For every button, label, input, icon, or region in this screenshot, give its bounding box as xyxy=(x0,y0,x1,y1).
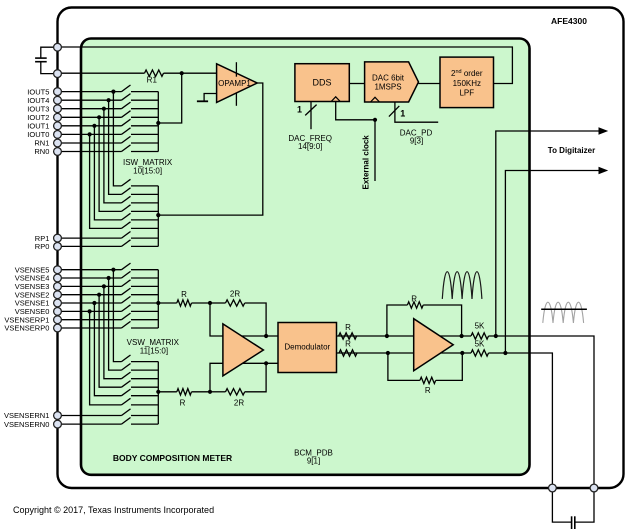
wire ISW upper switch 1 output to bus xyxy=(131,91,158,93)
wire pin VSENSE2 to VSW switch 4 xyxy=(58,294,122,296)
block Demodulator xyxy=(278,323,337,373)
wire demod top output line xyxy=(337,335,472,337)
wire tap IOUT4 down to ISW lower switch 2 xyxy=(109,100,122,194)
pin IOUT0 xyxy=(54,131,62,139)
svg-text:5K: 5K xyxy=(475,340,485,349)
wire node B up to amp1 bottom input xyxy=(210,363,278,392)
DAC_FREQ input stub xyxy=(310,102,312,130)
pin VSENSE1 xyxy=(54,299,62,307)
DAC clock chevron xyxy=(371,97,380,102)
block DAC 6bit 1MSPS xyxy=(365,62,419,102)
node tap on IOUT2 line xyxy=(97,115,101,119)
wire ISW upper switch 7 output to bus xyxy=(131,142,158,144)
node tap on IOUT5 line xyxy=(111,90,115,94)
svg-text:1: 1 xyxy=(297,104,302,114)
wire pin IOUT1 to ISW switch 5 xyxy=(58,125,122,127)
wire tap IOUT3 down to ISW lower switch 3 xyxy=(104,109,122,203)
pin RP1 xyxy=(54,234,62,242)
wire ISW lower switch 2 output to bus xyxy=(131,193,158,195)
wire pin RN1 to ISW switch 7 xyxy=(58,142,122,144)
switch blade VSW upper 5 xyxy=(122,296,131,303)
switch blade VSW upper 6 xyxy=(122,305,131,312)
wire tap IOUT5 down to ISW lower switch 1 xyxy=(113,92,121,186)
svg-text:Copyright © 2017, Texas Instru: Copyright © 2017, Texas Instruments Inco… xyxy=(13,505,214,515)
block DDS xyxy=(295,64,349,102)
ISW upper output bus xyxy=(157,92,159,152)
arrowhead top xyxy=(599,127,609,135)
node tap on IOUT3 line xyxy=(102,107,106,111)
wire pin RP1 to ISW lower switch 7 xyxy=(58,237,122,239)
node tap on IOUT0 line xyxy=(88,132,92,136)
resistor 2R (bottom) xyxy=(226,389,245,395)
node 2R/bottom output junction xyxy=(264,361,268,365)
svg-text:VSW_MATRIX: VSW_MATRIX xyxy=(127,338,180,347)
pin VSENSE2 xyxy=(54,291,62,299)
switch blade VSW lower 8 xyxy=(122,418,131,425)
svg-text:11[15:0]: 11[15:0] xyxy=(140,347,168,356)
wire pin IOUT0 to ISW switch 6 xyxy=(58,133,122,135)
pin IOUT5 xyxy=(54,88,62,96)
svg-text:External clock: External clock xyxy=(362,135,371,190)
switch blade ISW upper 1 xyxy=(122,85,131,92)
node tap on VSENSE3 line xyxy=(102,284,106,288)
wire VSW lower switch 7 output to bus xyxy=(131,415,158,417)
switch blade VSW upper 4 xyxy=(122,288,131,295)
wire VSW upper switch 8 output to bus xyxy=(131,327,158,329)
pin VSENSERP1 xyxy=(54,316,62,324)
svg-text:1: 1 xyxy=(400,108,405,118)
svg-text:10[15:0]: 10[15:0] xyxy=(133,166,162,175)
node ISW lower bus tap xyxy=(156,213,160,217)
svg-text:1MSPS: 1MSPS xyxy=(374,83,401,92)
wire ISW upper switch 3 output to bus xyxy=(131,108,158,110)
switch blade ISW upper 6 xyxy=(122,128,131,135)
node VSW upper bus tap xyxy=(156,301,160,305)
wire VSW upper switch 1 output to bus xyxy=(131,269,158,271)
waveform sketch (rectified sine, internal) xyxy=(442,272,482,299)
wire pin VSENSERN1 to VSW lower switch 7 xyxy=(58,415,122,417)
svg-text:VSENSERP0: VSENSERP0 xyxy=(4,324,49,333)
node tap on VSENSE4 line xyxy=(107,276,111,280)
pin IOUT2 xyxy=(54,113,62,121)
svg-text:OPAMP1: OPAMP1 xyxy=(218,79,251,88)
node tap on VSENSE0 line xyxy=(88,309,92,313)
svg-text:R1: R1 xyxy=(147,75,158,84)
wire VSW lower switch 8 output to bus xyxy=(131,423,158,425)
wire tap VSENSE1 down to VSW lower switch 5 xyxy=(94,303,121,396)
switch blade ISW upper 3 xyxy=(122,102,131,109)
wire VSW upper switch 3 output to bus xyxy=(131,285,158,287)
feedback resistor R (amp2 bottom) loop xyxy=(388,353,420,380)
switch blade VSW upper 7 xyxy=(122,313,131,320)
wire ISW upper switch 8 output to bus xyxy=(131,151,158,153)
node tap on VSENSE1 line xyxy=(92,301,96,305)
switch blade VSW lower 6 xyxy=(122,398,131,405)
wire pin VSENSE1 to VSW switch 5 xyxy=(58,302,122,304)
svg-text:R: R xyxy=(425,386,431,395)
node tap on VSENSE5 line xyxy=(111,268,115,272)
switch blade ISW lower 4 xyxy=(122,205,131,212)
VSW lower output bus xyxy=(157,362,159,425)
wire external clock to DDS and DAC chevrons xyxy=(336,102,375,182)
pin OUT-right (bottom) xyxy=(590,484,598,492)
wire 2R to amp1 bottom output line xyxy=(245,363,266,392)
wire 2R to amp1 top output line xyxy=(245,303,266,336)
wire demod bottom output line xyxy=(337,352,472,354)
svg-text:2R: 2R xyxy=(230,289,240,298)
baseline through grey waveform xyxy=(541,308,587,310)
switch blade ISW lower 1 xyxy=(122,179,131,186)
capacitor C2 (external, bottom) xyxy=(571,516,573,529)
pin VSENSE3 xyxy=(54,283,62,291)
switch blade VSW lower 7 xyxy=(122,409,131,416)
wire VSW lower switch 4 output to bus xyxy=(131,386,158,388)
svg-text:9[3]: 9[3] xyxy=(410,136,423,145)
wire capacitor C1 to pin2 xyxy=(41,62,58,74)
wire node A to resistor 2R (top feedback) xyxy=(210,302,226,304)
op-amp A2 (output buffer) xyxy=(414,319,454,371)
node amp2 bottom output junction xyxy=(460,351,464,355)
wire VSW lower switch 5 output to bus xyxy=(131,395,158,397)
wire R1 to OPAMP1 non-inverting input xyxy=(164,72,217,74)
wire ISW upper switch 5 output to bus xyxy=(131,125,158,127)
wire R to node B xyxy=(192,391,211,393)
OPAMP1 top bias stub xyxy=(235,62,237,76)
switch blade ISW lower 6 xyxy=(122,222,131,229)
pin VSENSERP0 xyxy=(54,324,62,332)
wire pin IOUT4 to ISW switch 2 xyxy=(58,99,122,101)
wire VSW lower switch 6 output to bus xyxy=(131,404,158,406)
svg-text:5K: 5K xyxy=(475,321,485,330)
wire pin1 to external capacitor C1 xyxy=(41,47,58,58)
wire R to node A xyxy=(192,302,211,304)
wire ISW lower switch 3 output to bus xyxy=(131,202,158,204)
svg-text:Demodulator: Demodulator xyxy=(284,342,330,351)
pin VSENSE4 xyxy=(54,274,62,282)
wire VSW upper switch 6 output to bus xyxy=(131,310,158,312)
wire DAC to LPF xyxy=(419,83,441,85)
wire tap VSENSE4 down to VSW lower switch 2 xyxy=(109,278,122,370)
switch blade ISW upper 4 xyxy=(122,111,131,118)
wire VSW upper switch 7 output to bus xyxy=(131,319,158,321)
switch blade ISW upper 5 xyxy=(122,119,131,126)
wire pin VSENSERP1 to VSW switch 7 xyxy=(58,319,122,321)
svg-text:RP0: RP0 xyxy=(35,242,50,251)
wire ISW upper switch 4 output to bus xyxy=(131,116,158,118)
node amp2 top input junction xyxy=(385,334,389,338)
switch blade ISW upper 7 xyxy=(122,136,131,143)
resistor 5K (top) xyxy=(471,333,489,339)
switch blade ISW lower 8 xyxy=(122,240,131,247)
switch blade VSW lower 3 xyxy=(122,372,131,379)
wire tap IOUT2 down to ISW lower switch 4 xyxy=(99,117,121,211)
wire DDS to DAC xyxy=(349,83,364,85)
wire VSW lower switch 1 output to bus xyxy=(131,361,158,363)
wire ISW lower switch 7 output to bus xyxy=(131,237,158,239)
wire tap VSENSE2 down to VSW lower switch 4 xyxy=(99,295,121,388)
node A (top input node) xyxy=(208,301,212,305)
switch blade VSW lower 4 xyxy=(122,381,131,388)
resistor R1 xyxy=(145,70,164,76)
wire VSW lower switch 2 output to bus xyxy=(131,369,158,371)
wire bottom output to digitizer arrow xyxy=(505,171,599,354)
switch blade VSW upper 2 xyxy=(122,271,131,278)
node VSW lower bus tap xyxy=(156,390,160,394)
pin VSENSERN0 xyxy=(54,420,62,428)
svg-text:AFE4300: AFE4300 xyxy=(551,16,587,26)
resistor R (demod top output) xyxy=(339,333,357,339)
svg-text:VSENSERN0: VSENSERN0 xyxy=(4,420,49,429)
pin NC xyxy=(54,70,62,78)
body composition meter block (green region) xyxy=(81,39,530,475)
pin NC xyxy=(54,43,62,51)
wire ISW lower switch 1 output to bus xyxy=(131,185,158,187)
op-amp A1 (instrumentation amplifier) xyxy=(223,324,264,376)
node amp2 top output junction xyxy=(460,334,464,338)
svg-text:2R: 2R xyxy=(234,398,244,407)
wire ISW lower switch 6 output to bus xyxy=(131,227,158,229)
wire pin RP0 to ISW lower switch 8 xyxy=(58,245,122,247)
node B (bottom input node) xyxy=(208,390,212,394)
pin VSENSE0 xyxy=(54,308,62,316)
wire node A down to amp1 top input xyxy=(210,303,278,336)
pin IOUT4 xyxy=(54,96,62,104)
capacitor C1 (external) xyxy=(35,57,47,59)
wire pin VSENSE0 to VSW switch 6 xyxy=(58,310,122,312)
wire ISW lower switch 5 output to bus xyxy=(131,219,158,221)
svg-text:To Digitaizer: To Digitaizer xyxy=(548,146,595,155)
ISW lower output bus xyxy=(157,186,159,247)
switch blade ISW lower 5 xyxy=(122,213,131,220)
resistor 2R (top) xyxy=(226,300,245,306)
svg-text:RN0: RN0 xyxy=(34,147,49,156)
node tap on IOUT4 line xyxy=(107,98,111,102)
wire LPF output to pin1 (top rail) xyxy=(58,47,513,84)
pin IOUT1 xyxy=(54,122,62,130)
node tap on IOUT1 line xyxy=(92,124,96,128)
node R1/OPAMP1 input junction xyxy=(180,71,184,75)
DDS clock chevron xyxy=(331,97,340,102)
DAC_PD input stub xyxy=(395,102,438,122)
switch blade VSW upper 8 xyxy=(122,321,131,328)
svg-text:R: R xyxy=(345,339,351,348)
svg-text:150KHz: 150KHz xyxy=(453,79,481,88)
switch blade VSW lower 2 xyxy=(122,364,131,371)
wire ISW upper bus to OPAMP1 input xyxy=(158,73,181,123)
svg-text:BODY COMPOSITION METER: BODY COMPOSITION METER xyxy=(113,453,232,463)
pin RN1 xyxy=(54,139,62,147)
waveform sketch (rectified sine, output, grey) xyxy=(543,302,584,323)
node top digitizer tap xyxy=(494,334,498,338)
svg-text:R: R xyxy=(181,290,187,299)
wire ISW lower switch 8 output to bus xyxy=(131,245,158,247)
switch blade ISW upper 2 xyxy=(122,94,131,101)
wire node B to resistor 2R (bottom feedback) xyxy=(210,391,226,393)
wire tap VSENSE5 down to VSW lower switch 1 xyxy=(113,270,121,362)
svg-text:9[1]: 9[1] xyxy=(307,457,320,466)
pin RN0 xyxy=(54,148,62,156)
node amp2 bottom input junction xyxy=(386,351,390,355)
switch blade VSW upper 3 xyxy=(122,280,131,287)
wire VSW upper switch 4 output to bus xyxy=(131,294,158,296)
pin IOUT3 xyxy=(54,105,62,113)
wire tap VSENSE0 down to VSW lower switch 6 xyxy=(90,311,122,405)
wire pin VSENSE5 to VSW switch 1 xyxy=(58,269,122,271)
wire pin VSENSE3 to VSW switch 3 xyxy=(58,285,122,287)
wire top output to digitizer arrow xyxy=(496,131,599,336)
svg-text:LPF: LPF xyxy=(459,88,474,97)
block 2nd order 150KHz LPF xyxy=(440,57,494,108)
switch blade VSW lower 1 xyxy=(122,355,131,362)
feedback resistor R (amp2 top) loop xyxy=(387,305,408,336)
pin OUT-left (bottom) xyxy=(549,484,557,492)
switch blade ISW lower 3 xyxy=(122,196,131,203)
wire top 5K to right pin xyxy=(489,336,595,522)
resistor R (in-amp bottom input) xyxy=(177,389,192,395)
wire ISW upper switch 2 output to bus xyxy=(131,99,158,101)
node tap on VSENSE2 line xyxy=(97,293,101,297)
VSW upper output bus xyxy=(157,270,159,328)
wire tap IOUT0 down to ISW lower switch 6 xyxy=(90,134,122,228)
wire pin2 to resistor R1 xyxy=(58,72,145,74)
bus-width slash on DAC_PD xyxy=(389,106,399,117)
svg-text:R: R xyxy=(180,398,186,407)
switch blade VSW upper 1 xyxy=(122,263,131,270)
wire pin IOUT5 to ISW switch 1 xyxy=(58,91,122,93)
switch blade ISW lower 7 xyxy=(122,232,131,239)
wire VSW lower bus to resistor R (bottom) xyxy=(158,391,177,393)
node 2R/top output junction xyxy=(264,334,268,338)
pin RP0 xyxy=(54,243,62,251)
wire pin VSENSE4 to VSW switch 2 xyxy=(58,277,122,279)
wire tap VSENSE3 down to VSW lower switch 3 xyxy=(104,286,122,378)
resistor 5K (bottom) xyxy=(471,350,489,356)
wire pin RN0 to ISW switch 8 xyxy=(58,151,122,153)
switch blade ISW upper 8 xyxy=(122,145,131,152)
arrowhead bottom xyxy=(599,167,609,175)
wire ISW upper switch 6 output to bus xyxy=(131,133,158,135)
pin VSENSE5 xyxy=(54,266,62,274)
wire OPAMP1 output down to ISW lower bus xyxy=(158,83,262,215)
wire pin VSENSERP0 to VSW switch 8 xyxy=(58,327,122,329)
bus-width slash on DAC_FREQ xyxy=(305,105,316,116)
svg-text:14[9:0]: 14[9:0] xyxy=(298,142,322,151)
wire pin VSENSERN0 to VSW lower switch 8 xyxy=(58,423,122,425)
wire pin IOUT2 to ISW switch 4 xyxy=(58,116,122,118)
resistor R (in-amp top input) xyxy=(177,300,192,306)
switch blade VSW lower 5 xyxy=(122,389,131,396)
wire VSW lower switch 3 output to bus xyxy=(131,378,158,380)
OPAMP1 bottom bias stub xyxy=(235,93,237,106)
wire VSW upper bus to resistor R (top) xyxy=(158,302,177,304)
wire VSW upper switch 2 output to bus xyxy=(131,277,158,279)
wire VSW upper switch 5 output to bus xyxy=(131,302,158,304)
svg-text:R: R xyxy=(345,323,351,332)
pin VSENSERN1 xyxy=(54,412,62,420)
wire tap IOUT1 down to ISW lower switch 5 xyxy=(94,126,121,220)
wire ISW lower switch 4 output to bus xyxy=(131,210,158,212)
wire bottom 5K to left pin xyxy=(489,353,572,522)
resistor R (demod bottom output) xyxy=(339,350,357,356)
svg-text:DDS: DDS xyxy=(312,78,331,88)
svg-text:DAC 6bit: DAC 6bit xyxy=(372,74,405,83)
node clock junction xyxy=(373,118,377,122)
node bottom digitizer tap xyxy=(503,351,507,355)
wire pin IOUT3 to ISW switch 3 xyxy=(58,108,122,110)
svg-text:R: R xyxy=(411,294,417,303)
switch blade ISW lower 2 xyxy=(122,188,131,195)
op-amp OPAMP1 xyxy=(217,64,258,103)
ground reference at OPAMP1 inverting input xyxy=(204,94,217,102)
node ISW upper bus tap xyxy=(156,121,160,125)
